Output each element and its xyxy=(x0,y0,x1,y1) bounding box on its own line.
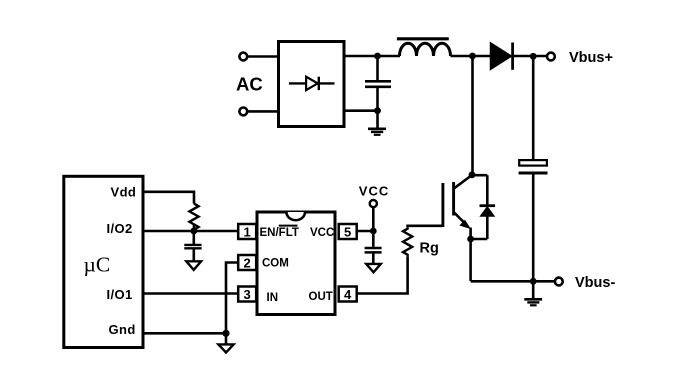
svg-text:2: 2 xyxy=(244,255,251,270)
wire resistor to I/O2 line xyxy=(193,224,196,231)
ground (arrow) at Gnd xyxy=(218,344,233,352)
terminal Vbus+ xyxy=(547,53,555,61)
resistor Rg xyxy=(403,227,412,256)
diode D2 (freewheel) xyxy=(471,175,496,239)
wire OUT pin 4 to Rg xyxy=(357,256,408,293)
resistor R1 (pull-up) xyxy=(189,204,198,231)
capacitor C1 (bridge filter) xyxy=(365,56,391,111)
wire bus cap top xyxy=(532,56,535,160)
capacitor C3 (DC bus) xyxy=(519,160,548,281)
gate driver U1 xyxy=(257,212,335,315)
wire Rg to gate xyxy=(408,226,443,228)
pin 2 box xyxy=(238,255,256,270)
pin 1 box xyxy=(238,224,256,239)
AC input terminal bottom xyxy=(239,108,277,116)
svg-text:1: 1 xyxy=(244,224,251,239)
svg-text:VCC: VCC xyxy=(310,227,334,239)
svg-text:EN/FLT: EN/FLT xyxy=(260,227,299,239)
wire COM pin 2 to ground xyxy=(226,263,238,345)
svg-text:OUT: OUT xyxy=(309,291,333,303)
wire Gnd from µC xyxy=(143,332,226,335)
wire bridge bottom output xyxy=(344,109,378,112)
wire Vbus- rail xyxy=(471,280,555,283)
svg-text:COM: COM xyxy=(262,257,289,269)
svg-text:4: 4 xyxy=(344,287,352,302)
svg-text:Rg: Rg xyxy=(420,241,439,257)
diode D1 (boost) xyxy=(491,43,548,70)
wire I/O2 to pin 1 xyxy=(143,230,238,233)
capacitor C4 (VCC bypass) xyxy=(365,248,382,264)
pin 4 box xyxy=(339,287,357,302)
svg-text:Gnd: Gnd xyxy=(109,322,136,337)
inductor L1 xyxy=(397,39,451,56)
svg-text:VCC: VCC xyxy=(359,184,389,199)
capacitor C2 (I/O2 filter) xyxy=(184,231,201,261)
svg-text:Vbus+: Vbus+ xyxy=(569,50,613,66)
node junction at filter cap bottom xyxy=(374,107,381,114)
node junction Gnd/COM xyxy=(222,330,229,337)
node junction I/O2 xyxy=(190,228,197,235)
wire VCC to pin 5 xyxy=(357,207,374,246)
svg-text:AC: AC xyxy=(236,74,263,95)
terminal Vbus- xyxy=(555,278,563,286)
ground (arrow) below C2 xyxy=(186,261,201,270)
wire bridge top output to inductor xyxy=(344,55,400,58)
svg-text:3: 3 xyxy=(244,287,251,302)
ground (earth) at Vbus- xyxy=(524,281,542,305)
node emitter junction xyxy=(467,236,474,243)
wire Vdd to pull-up resistor xyxy=(143,192,194,204)
wire inductor to diode xyxy=(451,55,491,58)
microcontroller U2 (µC) xyxy=(64,176,143,347)
node junction at Vbus+ / bus cap xyxy=(530,53,537,60)
node junction VCC xyxy=(370,228,377,235)
svg-text:5: 5 xyxy=(344,224,351,239)
wire collector drop xyxy=(471,56,474,175)
node junction at collector branch xyxy=(469,53,476,60)
wire collector to freewheel diode xyxy=(472,174,487,177)
ground (earth) below bridge cap xyxy=(368,111,386,135)
svg-text:I/O2: I/O2 xyxy=(107,221,133,236)
bridge rectifier BR1 xyxy=(279,42,345,127)
node collector junction xyxy=(469,171,476,178)
terminal VCC xyxy=(370,200,377,207)
svg-text:I/O1: I/O1 xyxy=(107,287,133,302)
pin label EN/FLT with overline xyxy=(260,226,299,240)
AC input terminal top xyxy=(239,53,277,61)
node junction Vbus- ground xyxy=(530,278,537,285)
svg-text:IN: IN xyxy=(267,292,279,304)
svg-text:Vbus-: Vbus- xyxy=(575,275,615,291)
pin 5 box xyxy=(339,224,357,239)
svg-text:Vdd: Vdd xyxy=(111,184,137,199)
ground (arrow) below C4 xyxy=(366,264,381,272)
wire I/O1 to pin 3 xyxy=(143,292,238,295)
svg-text:µC: µC xyxy=(84,253,111,277)
node junction at filter cap top xyxy=(374,53,381,60)
transistor Q1 (IGBT) xyxy=(443,175,472,281)
pin 3 box xyxy=(238,287,256,302)
